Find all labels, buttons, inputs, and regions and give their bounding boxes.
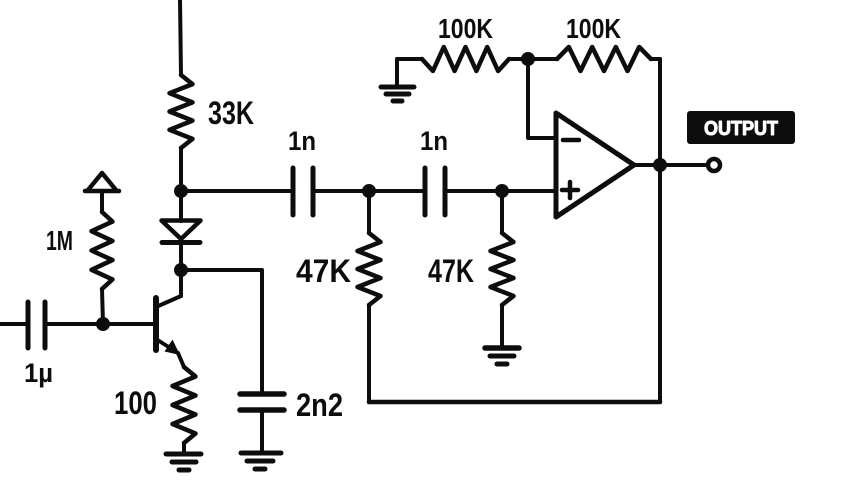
node D feedback junction (521, 52, 535, 66)
output terminal (708, 159, 720, 171)
ground for 100 (166, 454, 201, 470)
svg-text:100K: 100K (566, 13, 621, 44)
svg-text:100: 100 (114, 385, 157, 421)
svg-text:33K: 33K (208, 95, 254, 131)
node C (495, 184, 509, 198)
wire node D to op-amp minus input (528, 59, 556, 138)
svg-text:47K: 47K (296, 253, 351, 289)
label 100K R1 (438, 13, 493, 44)
capacitor 2n2 (240, 394, 284, 452)
wire feedback bottom bus (369, 400, 660, 405)
wire top supply feed (180, 0, 181, 75)
wire node B to C2 (369, 189, 425, 193)
resistor 100 (173, 367, 196, 453)
wire node E to 2n2 branch (181, 270, 262, 394)
resistor 100K R1 (422, 47, 528, 71)
svg-text:1n: 1n (288, 126, 316, 156)
label 2n2 (296, 387, 343, 423)
node B (362, 184, 376, 198)
svg-text:OUTPUT: OUTPUT (704, 118, 778, 140)
wire C1 to node B (313, 189, 369, 193)
label 1n C2 (420, 126, 448, 156)
label 33K (208, 95, 254, 131)
label 1u (24, 358, 53, 388)
capacitor 1n C2 (425, 168, 445, 215)
wire feedback right vertical (658, 59, 662, 402)
label 1n C1 (288, 126, 316, 156)
supply arrow above 1M (85, 173, 119, 212)
label 47K R3 (296, 253, 351, 289)
diode D1 (162, 191, 201, 270)
svg-text:47K: 47K (428, 253, 474, 289)
capacitor 1u input (0, 302, 103, 348)
label OUTPUT box (687, 111, 795, 144)
resistor 100K R2 (528, 47, 660, 71)
resistor 47K R3 (358, 191, 381, 305)
wire 47K R3 bottom to feedback bus (367, 305, 371, 402)
transistor Q1 (103, 270, 184, 367)
label 47K R4 (428, 253, 474, 289)
resistor 33K (170, 75, 193, 148)
wire op-amp output (634, 163, 705, 167)
node E collector junction (174, 263, 188, 277)
label 1M (46, 225, 73, 256)
wire node C to op-amp plus input (502, 189, 556, 193)
svg-text:2n2: 2n2 (296, 387, 343, 423)
ground for 2n2 (241, 453, 281, 469)
label 100 (114, 385, 157, 421)
ground for 100K R1 (381, 59, 422, 101)
wire node A to C1 (181, 189, 293, 193)
wire 33K bottom to node A (179, 148, 183, 191)
resistor 47K R4 (491, 191, 514, 347)
node output junction (653, 158, 667, 172)
node A (174, 184, 188, 198)
svg-text:1n: 1n (420, 126, 448, 156)
capacitor 1n C1 (293, 168, 313, 215)
svg-text:100K: 100K (438, 13, 493, 44)
node F base junction (96, 317, 110, 331)
wire C2 to node C (445, 189, 502, 193)
svg-text:1M: 1M (46, 225, 73, 256)
resistor 1M (92, 212, 113, 324)
ground for 47K R4 (485, 348, 519, 364)
label 100K R2 (566, 13, 621, 44)
svg-text:1µ: 1µ (24, 358, 53, 388)
op-amp U1 (556, 113, 634, 217)
